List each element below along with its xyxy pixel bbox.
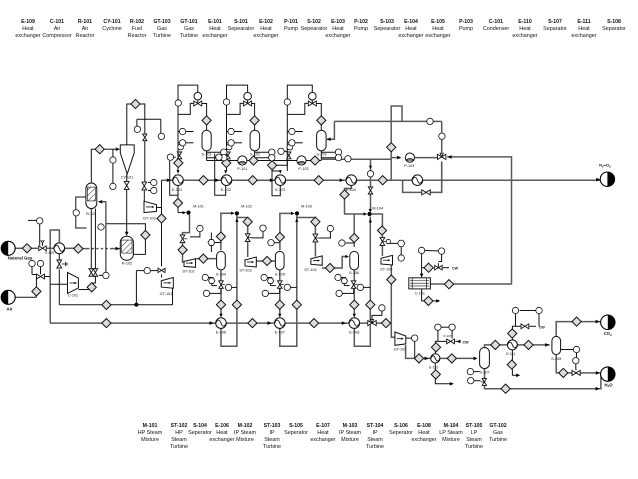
svg-text:ST-103: ST-103	[239, 269, 251, 273]
svg-text:S-101: S-101	[202, 153, 212, 157]
svg-text:CY-101: CY-101	[103, 19, 120, 25]
svg-text:Heat: Heat	[432, 26, 444, 32]
svg-text:E-110: E-110	[429, 366, 438, 370]
svg-text:E-103: E-103	[275, 188, 285, 192]
svg-text:HP Steam: HP Steam	[138, 430, 163, 436]
svg-text:E-108: E-108	[349, 331, 359, 335]
svg-text:Sepearator: Sepearator	[301, 26, 328, 32]
svg-text:M-102: M-102	[238, 423, 253, 429]
svg-text:ST-104: ST-104	[367, 423, 384, 429]
svg-text:Pump: Pump	[459, 26, 473, 32]
svg-text:IP: IP	[372, 430, 377, 436]
svg-text:E-109: E-109	[21, 19, 35, 25]
svg-text:CY-101: CY-101	[121, 175, 134, 179]
svg-text:S-108: S-108	[607, 19, 621, 25]
svg-text:E-107: E-107	[275, 331, 285, 335]
svg-text:Turbine: Turbine	[465, 444, 483, 450]
svg-text:M-104: M-104	[372, 206, 383, 210]
svg-text:Mixture: Mixture	[141, 437, 159, 443]
svg-text:ST-103: ST-103	[264, 423, 281, 429]
svg-text:E-102: E-102	[259, 19, 273, 25]
svg-text:M-103: M-103	[343, 423, 358, 429]
svg-text:C-101: C-101	[50, 19, 64, 25]
svg-text:Steam: Steam	[264, 437, 280, 443]
svg-text:exchanger: exchanger	[571, 33, 596, 39]
svg-text:C-101: C-101	[489, 19, 503, 25]
svg-text:Heat: Heat	[22, 26, 34, 32]
svg-text:Turbine: Turbine	[170, 444, 188, 450]
svg-text:P-107: P-107	[443, 334, 451, 338]
svg-text:S-105: S-105	[275, 273, 285, 277]
svg-text:Turbine: Turbine	[489, 437, 507, 443]
svg-text:Seperator: Seperator	[284, 430, 308, 436]
svg-text:R-102: R-102	[130, 19, 144, 25]
svg-text:exchanger: exchanger	[425, 33, 450, 39]
svg-text:Turbine: Turbine	[180, 33, 198, 39]
svg-text:Seperator: Seperator	[389, 430, 413, 436]
svg-text:exchanger: exchanger	[398, 33, 423, 39]
svg-text:Heat: Heat	[317, 430, 329, 436]
svg-text:E-102: E-102	[221, 188, 231, 192]
svg-text:Gas: Gas	[157, 26, 167, 32]
svg-text:exchanger: exchanger	[253, 33, 278, 39]
svg-text:IP Steam: IP Steam	[339, 430, 362, 436]
svg-text:Compressor: Compressor	[42, 33, 72, 39]
svg-text:Steam: Steam	[171, 437, 187, 443]
svg-text:GT-101: GT-101	[180, 19, 197, 25]
svg-text:M-103: M-103	[301, 204, 312, 208]
svg-text:E-106: E-106	[216, 331, 226, 335]
svg-text:IP: IP	[269, 430, 274, 436]
svg-text:R-101: R-101	[78, 19, 92, 25]
svg-text:Air: Air	[6, 307, 12, 312]
svg-text:Separator: Separator	[602, 26, 626, 32]
svg-text:Fuel: Fuel	[132, 26, 143, 32]
svg-text:exchanger: exchanger	[411, 437, 436, 443]
svg-text:P-102: P-102	[298, 167, 308, 171]
svg-text:E-109: E-109	[45, 251, 54, 255]
svg-text:Turbine: Turbine	[366, 444, 384, 450]
svg-text:Heat: Heat	[260, 26, 272, 32]
svg-text:Sepearator: Sepearator	[374, 26, 401, 32]
svg-text:LP Steam: LP Steam	[439, 430, 463, 436]
svg-text:R-102: R-102	[122, 262, 132, 266]
svg-text:GT-103: GT-103	[143, 217, 156, 221]
svg-text:E-105: E-105	[431, 19, 445, 25]
svg-text:ST-102: ST-102	[182, 270, 194, 274]
svg-text:CW: CW	[463, 340, 470, 344]
svg-text:E-104: E-104	[346, 188, 356, 192]
svg-text:P-102: P-102	[354, 19, 368, 25]
svg-text:S-102: S-102	[307, 19, 321, 25]
svg-text:P-103: P-103	[404, 164, 414, 168]
svg-text:R-101: R-101	[86, 212, 96, 216]
svg-text:Seperator: Seperator	[188, 430, 212, 436]
svg-text:Condenser: Condenser	[483, 26, 510, 32]
svg-text:Reactor: Reactor	[128, 33, 147, 39]
svg-text:S-101: S-101	[234, 19, 248, 25]
svg-text:S-107: S-107	[479, 371, 489, 375]
svg-text:Sepearator: Sepearator	[228, 26, 255, 32]
svg-text:S-103: S-103	[316, 153, 326, 157]
svg-text:ST-105: ST-105	[380, 267, 392, 271]
svg-text:Heat: Heat	[209, 26, 221, 32]
svg-text:Mixture: Mixture	[442, 437, 460, 443]
svg-text:Turbine: Turbine	[263, 444, 281, 450]
svg-text:Gas: Gas	[184, 26, 194, 32]
svg-text:S-106: S-106	[349, 271, 359, 275]
svg-text:E-107: E-107	[316, 423, 330, 429]
svg-text:IP Steam: IP Steam	[234, 430, 257, 436]
svg-text:GT-103: GT-103	[153, 19, 170, 25]
svg-text:M-101: M-101	[193, 204, 204, 208]
svg-text:E-108: E-108	[417, 423, 431, 429]
svg-text:Heat: Heat	[519, 26, 531, 32]
svg-text:S-104: S-104	[216, 273, 226, 277]
svg-text:Heat: Heat	[216, 430, 228, 436]
svg-text:Turbine: Turbine	[153, 33, 171, 39]
svg-text:Heat: Heat	[578, 26, 590, 32]
svg-text:exchanger: exchanger	[202, 33, 227, 39]
svg-text:exchanger: exchanger	[310, 437, 335, 443]
svg-text:Separator: Separator	[543, 26, 567, 32]
svg-text:S-104: S-104	[193, 423, 207, 429]
svg-text:Pump: Pump	[284, 26, 298, 32]
svg-text:ST-102: ST-102	[171, 423, 188, 429]
svg-text:M-104: M-104	[444, 423, 459, 429]
svg-text:S-102: S-102	[250, 153, 260, 157]
svg-text:S-106: S-106	[394, 423, 408, 429]
svg-text:GT-102: GT-102	[394, 347, 407, 351]
svg-text:Heat: Heat	[418, 430, 430, 436]
svg-text:E-101: E-101	[172, 188, 182, 192]
svg-text:Gas: Gas	[493, 430, 503, 436]
svg-text:GT-102: GT-102	[489, 423, 506, 429]
svg-text:Heat: Heat	[405, 26, 417, 32]
svg-text:Heat: Heat	[332, 26, 344, 32]
svg-text:E-110: E-110	[518, 19, 532, 25]
svg-text:C-101: C-101	[415, 291, 425, 295]
svg-text:S-107: S-107	[548, 19, 562, 25]
svg-text:HP: HP	[175, 430, 183, 436]
svg-text:ST-104: ST-104	[304, 268, 316, 272]
svg-text:E-106: E-106	[215, 423, 229, 429]
svg-text:CW: CW	[452, 267, 459, 271]
svg-text:P-101: P-101	[237, 167, 247, 171]
svg-text:LP: LP	[471, 430, 478, 436]
svg-text:Steam: Steam	[367, 437, 383, 443]
svg-text:ST-105: ST-105	[466, 423, 483, 429]
svg-text:GT-101: GT-101	[160, 292, 173, 296]
svg-text:Mixture: Mixture	[341, 437, 359, 443]
svg-text:Pump: Pump	[354, 26, 368, 32]
svg-text:Air: Air	[54, 26, 61, 32]
svg-text:exchanger: exchanger	[15, 33, 40, 39]
svg-text:Natural Gas: Natural Gas	[8, 256, 33, 261]
svg-text:E-101: E-101	[208, 19, 222, 25]
svg-text:exchanger: exchanger	[325, 33, 350, 39]
svg-text:P-101: P-101	[284, 19, 298, 25]
svg-text:M-101: M-101	[143, 423, 158, 429]
svg-text:Air: Air	[82, 26, 89, 32]
svg-text:Steam: Steam	[466, 437, 482, 443]
svg-text:Mixture: Mixture	[236, 437, 254, 443]
svg-text:S-105: S-105	[289, 423, 303, 429]
svg-text:E-103: E-103	[331, 19, 345, 25]
svg-text:M-102: M-102	[241, 204, 252, 208]
svg-text:CW: CW	[539, 325, 546, 329]
svg-text:P-103: P-103	[459, 19, 473, 25]
svg-text:E-104: E-104	[404, 19, 418, 25]
svg-text:exchanger: exchanger	[512, 33, 537, 39]
svg-text:Cyclone: Cyclone	[102, 26, 121, 32]
svg-text:Reactor: Reactor	[76, 33, 95, 39]
svg-text:E-111: E-111	[577, 19, 590, 25]
svg-text:S-103: S-103	[380, 19, 394, 25]
svg-text:C-101: C-101	[68, 294, 78, 298]
svg-text:S-108: S-108	[551, 357, 561, 361]
svg-text:E-111: E-111	[506, 352, 515, 356]
svg-text:exchanger: exchanger	[209, 437, 234, 443]
